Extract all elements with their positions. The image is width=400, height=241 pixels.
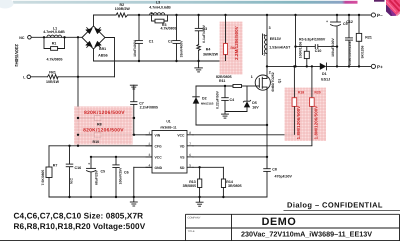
capacitor C7: [133, 85, 135, 101]
svg-text:iW3689–11: iW3689–11: [160, 125, 176, 129]
svg-text:C8: C8: [272, 167, 277, 171]
svg-text:C1: C1: [149, 40, 154, 44]
junction (78,76.8): [77, 76, 79, 78]
svg-text:820K/1206/500V: 820K/1206/500V: [83, 128, 124, 134]
fusible resistor FR1: [48, 75, 59, 79]
bottom-left notes: [14, 212, 146, 231]
svg-text:C16: C16: [75, 166, 82, 170]
wire: NC input to bridge: [32, 36, 83, 38]
svg-text:4.7mH,0.6dB: 4.7mH,0.6dB: [43, 30, 65, 34]
svg-text:D1: D1: [322, 72, 327, 76]
junction (295.5,46.6): [294, 45, 296, 47]
svg-text:C6: C6: [124, 171, 129, 175]
svg-text:DEMO: DEMO: [262, 216, 297, 228]
svg-text:3R/0805: 3R/0805: [183, 184, 197, 188]
svg-text:16V: 16V: [252, 106, 259, 110]
junction (267,156.9): [266, 156, 268, 158]
bridge diode BR1-b: [94, 28, 101, 34]
resistor R3 (parallel with L3): [152, 15, 156, 21]
resistor R14: [222, 167, 224, 179]
svg-text:TITLE: TITLE: [188, 230, 195, 233]
svg-text:2.2nF/0805: 2.2nF/0805: [140, 106, 158, 110]
junction (91,156.9): [90, 156, 92, 158]
capacitor C5 (electrolytic): [90, 157, 92, 168]
svg-text:D2: D2: [202, 96, 207, 100]
svg-text:NC: NC: [19, 36, 25, 40]
svg-text:68uF/25V: 68uF/25V: [95, 169, 99, 185]
junction (151.7,13.2): [151, 12, 153, 14]
svg-text:0.22uF/50V: 0.22uF/50V: [215, 90, 219, 108]
junction (267,15): [266, 14, 268, 16]
svg-text:SD: SD: [180, 166, 185, 170]
svg-text:C2: C2: [168, 40, 173, 44]
capacitor C4: [224, 86, 226, 97]
title block: [284, 209, 400, 211]
svg-text:6.8pF/1000V: 6.8pF/1000V: [305, 37, 326, 41]
snubber top line + capacitor C10: [296, 46, 316, 48]
svg-text:ABS6: ABS6: [98, 53, 108, 57]
svg-text:R11: R11: [219, 79, 225, 83]
junction (223.4,197): [222, 196, 224, 198]
junction (199.6,167.3): [198, 166, 200, 168]
ground above C7: [130, 84, 137, 86]
junction (139,61): [138, 60, 140, 62]
svg-text:6: 6: [189, 153, 191, 157]
wire: drain / freewheel line: [267, 65, 320, 67]
svg-text:EE13V: EE13V: [270, 37, 282, 41]
diode D1: [320, 63, 327, 70]
junction (295.5,15): [294, 14, 296, 16]
svg-text:2.2M/1206/500V: 2.2M/1206/500V: [234, 26, 239, 60]
wire: VCC line: [91, 156, 152, 158]
junction (78,37.3): [77, 36, 79, 38]
junction (267,66.4): [266, 65, 268, 67]
svg-text:R20: R20: [314, 90, 320, 94]
Dialog logo (top-right corner): [386, 0, 400, 16]
svg-text:GND: GND: [155, 166, 163, 170]
svg-text:C4,C6,C7,C8,C10 Size: 0805,X: C4,C6,C7,C8,C10 Size: 0805,X7R: [14, 212, 144, 221]
svg-text:6N60/TO252: 6N60/TO252: [271, 72, 275, 91]
svg-text:3R/0805: 3R/0805: [228, 184, 242, 188]
junction (198.6,61): [197, 60, 199, 62]
svg-text:1: 1: [149, 131, 151, 135]
wire: bridge bottom to DC- rail: [93, 49, 95, 61]
svg-text:230V/50Hz: 230V/50Hz: [14, 44, 19, 67]
source vertical + C8: [266, 90, 268, 168]
junction (311.9,66.4): [311, 65, 313, 67]
svg-text:3: 3: [149, 153, 151, 157]
svg-text:10nF/400V: 10nF/400V: [133, 39, 137, 57]
svg-text:C12: C12: [346, 20, 353, 24]
svg-text:230Vac_72V110mA_iW3689–11_EE13: 230Vac_72V110mA_iW3689–11_EE13V: [241, 230, 372, 239]
svg-text:MM1Z11B: MM1Z11B: [201, 103, 213, 106]
svg-text:4: 4: [149, 164, 151, 168]
resistor R8: [95, 116, 102, 121]
svg-text:4.7k/0805: 4.7k/0805: [161, 26, 177, 30]
svg-text:100R/2W: 100R/2W: [115, 7, 131, 11]
junction (225.5,15): [224, 14, 226, 16]
svg-text:R18: R18: [298, 90, 304, 94]
svg-text:C10: C10: [315, 49, 322, 53]
junction (78,145.8): [77, 145, 79, 147]
inductor L1: [47, 35, 62, 37]
capacitor C3: [198, 15, 200, 28]
svg-text:R4: R4: [206, 48, 211, 52]
red highlighted value texts: [83, 26, 321, 139]
junction (116,197): [115, 196, 117, 198]
junction (337,15): [336, 14, 338, 16]
svg-text:100uF/100V: 100uF/100V: [331, 37, 335, 56]
svg-text:10R/1W: 10R/1W: [46, 80, 60, 84]
terminal L: [27, 75, 31, 79]
svg-text:R6,R8,R10,R18,R20 Voltage:500: R6,R8,R10,R18,R20 Voltage:500V: [14, 222, 146, 231]
svg-text:1.8M/1206/500V: 1.8M/1206/500V: [296, 106, 301, 140]
junction (264.3,35): [264, 34, 266, 36]
zener D5: [246, 86, 248, 101]
wire: top DC+ rail: [94, 14, 117, 16]
wire: C4/zener bottoms: [225, 111, 247, 113]
resistor R7: [48, 146, 50, 167]
resistor R21: [358, 15, 360, 33]
snubber feed vertical: [295, 15, 297, 66]
junction (199.6,197): [198, 196, 200, 198]
junction dots group: [43, 12, 360, 198]
resistor R11 (gate): [233, 85, 242, 88]
ground (primary DC-): [198, 61, 200, 68]
output caps: C9 electrolytic: [336, 15, 338, 22]
MOSFET Q1: [255, 75, 270, 90]
bottom ground rail: [49, 196, 267, 198]
gate rail: [196, 85, 233, 87]
svg-text:33nF/400V: 33nF/400V: [180, 40, 184, 58]
svg-text:ES1J: ES1J: [321, 77, 330, 81]
svg-text:VCC: VCC: [155, 155, 163, 159]
svg-text:COMPANY: COMPANY: [188, 216, 201, 219]
svg-text:R8: R8: [97, 122, 102, 126]
svg-text:R10: R10: [93, 140, 100, 144]
capacitor C2: [176, 15, 178, 40]
wire: pin6 to source line: [193, 156, 267, 158]
svg-text:0.1uF/450V: 0.1uF/450V: [202, 24, 206, 42]
ground symbol (U1 gnd): [133, 197, 135, 202]
capacitor C16: [69, 146, 71, 164]
svg-text:8: 8: [189, 131, 191, 135]
junction (294.4,66.4): [293, 65, 295, 67]
svg-text:D5: D5: [252, 101, 257, 105]
svg-text:P+: P+: [377, 64, 383, 69]
svg-text:1: 1: [263, 53, 265, 57]
red highlight box 2 (R6): [220, 22, 243, 75]
wire: U1 GND to ground: [134, 166, 152, 168]
resistor R5: [306, 47, 308, 52]
svg-text:100R/1206: 100R/1206: [298, 42, 302, 59]
red highlight box 1 (820K sense resistors): [74, 107, 133, 145]
bridge diode BR1-d: [94, 41, 101, 47]
svg-text:CFG: CFG: [155, 144, 163, 148]
svg-text:R7: R7: [53, 163, 58, 167]
svg-text:3: 3: [269, 26, 271, 30]
svg-text:VIN: VIN: [155, 133, 161, 137]
svg-text:7.5K/0805: 7.5K/0805: [41, 170, 45, 186]
resistor R13: [199, 167, 201, 179]
terminal NC: [28, 36, 32, 40]
bridge diode BR1-a: [85, 28, 92, 34]
wire: bridge top to rail: [93, 15, 95, 26]
resistor R10: [95, 132, 102, 137]
terminal P-: [371, 13, 375, 17]
DC- ground rail: [94, 60, 226, 62]
wire: pin8 to R18: [193, 134, 294, 136]
junction (139,15): [138, 14, 140, 16]
IC U1 box: [152, 131, 187, 174]
wire: bridge right vertex to AC2 line: [105, 38, 115, 77]
svg-text:C4: C4: [230, 98, 235, 102]
wire: AC2 / FR1 line: [58, 76, 115, 78]
svg-text:L3: L3: [156, 0, 160, 4]
wire: CFG line: [49, 145, 152, 147]
inductor L3: [150, 13, 165, 15]
resistor R4 (series with C3): [197, 45, 201, 51]
junction (337,66.4): [336, 65, 338, 67]
capacitor C1: [138, 15, 140, 40]
junction (349,15): [348, 14, 350, 16]
diode D2: [195, 86, 197, 125]
junction (134,118): [133, 117, 135, 119]
junction (295.5,66.4): [294, 65, 296, 67]
svg-text:R6: R6: [231, 46, 235, 50]
wire: pin7 to R20: [193, 145, 312, 147]
capacitor C6: [115, 157, 117, 165]
resistor R6 (inside red box): [225, 15, 227, 44]
junction (69.5,145.8): [68, 145, 70, 147]
junction (176.5,15): [175, 14, 177, 16]
wire: AC line sense vertical: [77, 37, 79, 146]
svg-text:100nF/100V/1206: 100nF/100V/1206: [348, 41, 352, 65]
junction (267,125): [266, 124, 268, 126]
svg-text:820K/1206/500V: 820K/1206/500V: [84, 110, 125, 116]
wire: pin5 to sense resistors: [193, 166, 223, 168]
junction (349,66.4): [348, 65, 350, 67]
svg-text:BR1: BR1: [99, 47, 106, 51]
svg-text:7: 7: [189, 142, 191, 146]
junction (176.5,61): [175, 60, 177, 62]
bridge rectifier BR1: [82, 26, 105, 49]
bridge diode BR1-c: [85, 41, 92, 47]
resistor R2: [116, 13, 128, 17]
svg-text:R5: R5: [299, 37, 304, 41]
junction (359,66.4): [358, 65, 360, 67]
inductor (EE13) primary vertical: [266, 15, 268, 75]
junction (116,156.9): [115, 156, 117, 158]
svg-text:R21: R21: [365, 35, 372, 39]
svg-text:+: +: [88, 162, 90, 166]
svg-text:5K/1206: 5K/1206: [360, 45, 364, 58]
svg-text:VD: VD: [180, 144, 185, 148]
ground under C4: [224, 112, 226, 114]
junction (225,86): [224, 85, 226, 87]
svg-text:Dialog – CONFIDENTIAL: Dialog – CONFIDENTIAL: [287, 200, 383, 209]
svg-text:VS: VS: [180, 155, 185, 159]
svg-text:1: 1: [251, 75, 253, 79]
svg-text:U1: U1: [166, 120, 170, 124]
terminal P+: [371, 64, 375, 68]
wire: sense row 2 to U1 VIN: [78, 134, 152, 136]
labels: small black text: [43, 0, 176, 84]
svg-text:4.7k/0805: 4.7k/0805: [47, 58, 63, 62]
svg-text:1.8M/1206/500V: 1.8M/1206/500V: [313, 106, 318, 140]
svg-text:+: +: [326, 19, 328, 23]
capacitor C12: [348, 15, 350, 38]
junction (133.8,197): [133, 196, 135, 198]
junction (359,15): [358, 14, 360, 16]
svg-text:N.C: N.C: [70, 178, 74, 184]
junction (337,46.6): [336, 45, 338, 47]
U1 pin text: [155, 120, 186, 170]
ground symbol (sense gnd): [199, 197, 201, 202]
resistor R18 (inside red box): [293, 66, 295, 97]
junction (44,37.3): [43, 36, 45, 38]
junction (91,197): [90, 196, 92, 198]
junction (134,134.8): [133, 134, 135, 136]
svg-text:5: 5: [189, 164, 191, 168]
svg-text:1.53mH/AST: 1.53mH/AST: [269, 46, 291, 50]
junction (78,134.8): [77, 134, 79, 136]
rotated value labels: [14, 24, 364, 185]
resistor R20 (inside red box): [311, 66, 313, 97]
junction (69.5,197): [68, 196, 70, 198]
svg-text:FR1: FR1: [49, 70, 56, 74]
svg-text:100nF/25V: 100nF/25V: [118, 167, 122, 185]
junction (64.5,37.3): [63, 36, 65, 38]
wire: source return line: [196, 124, 267, 126]
svg-text:360R/2W: 360R/2W: [203, 53, 219, 57]
red highlight box 3 (R18/R20): [285, 88, 327, 142]
resistor R1 (parallel with L1): [44, 37, 51, 48]
wire: sense row 1: [78, 117, 134, 119]
junction (198.6,15): [197, 14, 199, 16]
svg-text:470pF,50V: 470pF,50V: [275, 174, 293, 178]
svg-text:4.7mH,0.6dB: 4.7mH,0.6dB: [149, 5, 171, 9]
svg-text:P–: P–: [377, 13, 383, 18]
junction (306.8,66.4): [306, 65, 308, 67]
svg-text:R1: R1: [52, 41, 57, 45]
junction (78,118): [77, 117, 79, 119]
svg-text:VCC: VCC: [177, 133, 185, 137]
svg-text:2: 2: [149, 142, 151, 146]
svg-text:Q1: Q1: [278, 79, 282, 84]
terminal labels: [377, 13, 383, 69]
svg-text:C5: C5: [101, 170, 106, 174]
